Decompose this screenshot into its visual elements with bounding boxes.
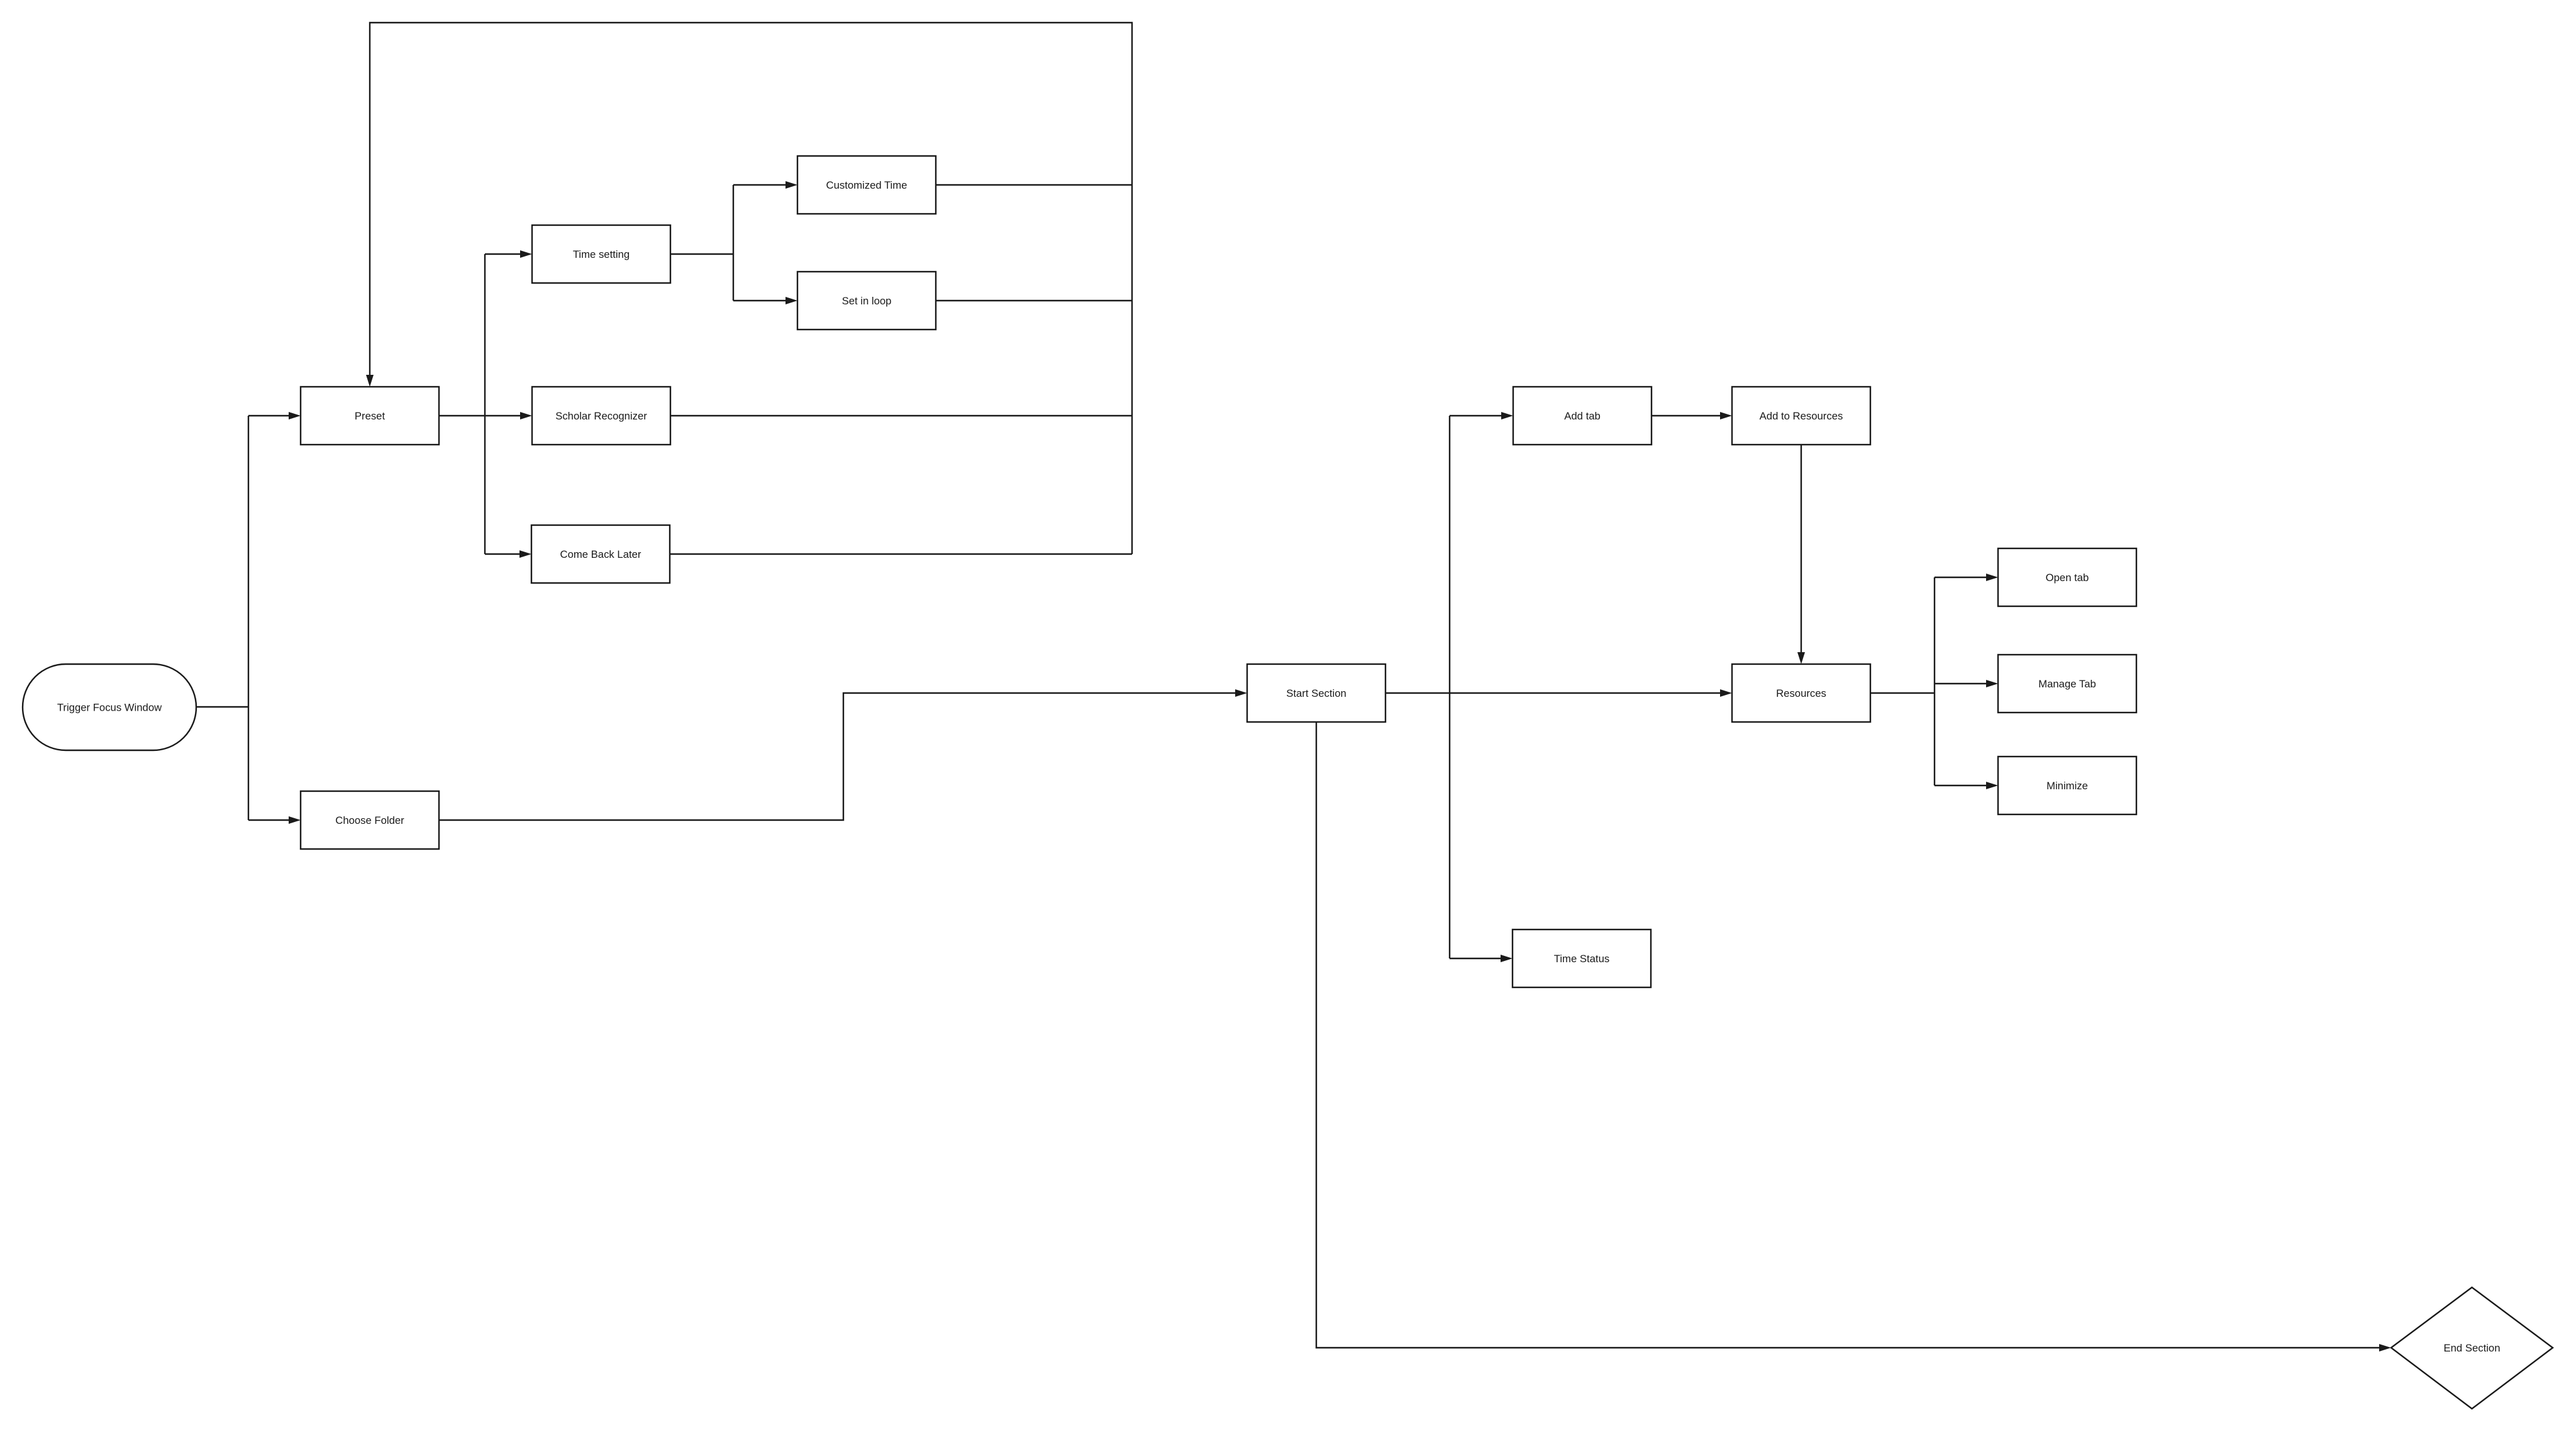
svg-text:Manage Tab: Manage Tab <box>2038 678 2096 690</box>
svg-text:Minimize: Minimize <box>2046 780 2088 792</box>
svg-text:Add tab: Add tab <box>1564 410 1601 422</box>
svg-text:Resources: Resources <box>1776 687 1826 699</box>
svg-text:Start Section: Start Section <box>1286 687 1346 699</box>
svg-text:Customized Time: Customized Time <box>826 179 908 191</box>
svg-text:Set in loop: Set in loop <box>842 295 892 307</box>
svg-text:Come Back Later: Come Back Later <box>560 548 641 560</box>
svg-text:End Section: End Section <box>2444 1342 2501 1354</box>
svg-text:Time setting: Time setting <box>573 248 630 260</box>
svg-text:Preset: Preset <box>355 410 386 422</box>
svg-text:Time Status: Time Status <box>1554 953 1609 965</box>
svg-text:Add to Resources: Add to Resources <box>1760 410 1843 422</box>
svg-text:Scholar Recognizer: Scholar Recognizer <box>555 410 647 422</box>
svg-text:Choose Folder: Choose Folder <box>335 814 404 826</box>
svg-text:Trigger Focus Window: Trigger Focus Window <box>57 702 162 714</box>
svg-text:Open tab: Open tab <box>2046 572 2089 584</box>
